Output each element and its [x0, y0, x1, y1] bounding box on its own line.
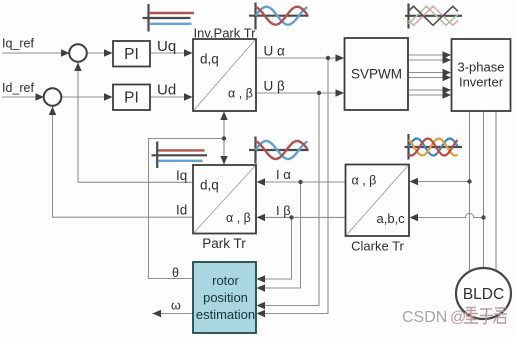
arrow Ubeta into estimator	[257, 302, 266, 309]
scope icon: three-phase currents (above Clarke Tr)	[405, 134, 463, 160]
svg-text:α , β: α , β	[226, 211, 251, 225]
arrow Ialpha into Park	[257, 178, 266, 185]
node Ualpha tap	[326, 56, 330, 60]
block Park Tr	[193, 165, 256, 251]
svg-text:position: position	[203, 290, 248, 305]
svg-text:Iq_ref: Iq_ref	[2, 37, 34, 51]
svg-text:α , β: α , β	[352, 174, 377, 188]
summing junction S2 (Id loop)	[44, 88, 62, 106]
wire PWM line 3	[408, 72, 444, 74]
svg-text:I β: I β	[276, 203, 291, 218]
svg-text:Ud: Ud	[157, 82, 176, 99]
block SVPWM	[345, 38, 409, 110]
wire omega output	[153, 313, 194, 315]
arrow Ibeta into Park	[257, 214, 266, 221]
wire sum1 to PI1	[87, 52, 112, 54]
node theta junction	[222, 136, 226, 140]
wire Ialpha feedback down to rotor estimator	[265, 182, 301, 288]
svg-text:I α: I α	[276, 167, 291, 182]
wire Ibeta Clarke to Park	[265, 216, 346, 218]
arrow into sum2 from Id_ref	[36, 93, 45, 100]
svg-text:Iq: Iq	[176, 168, 187, 183]
block 3-phase Inverter	[452, 39, 511, 111]
block Inv.Park Tr	[193, 26, 256, 112]
wire phase A inverter to BLDC	[469, 111, 471, 272]
wire Ualpha InvPark to SVPWM	[256, 57, 344, 59]
wire phase B tap to Clarke with hop over phase A	[418, 213, 484, 217]
wire Ubeta feedback down to rotor estimator	[265, 93, 320, 306]
wire Id_ref input	[2, 96, 44, 98]
arrow PWM3 into inverter	[443, 69, 452, 76]
summing junction S1 (Iq loop)	[69, 44, 87, 62]
arrow theta into InvPark	[220, 112, 227, 121]
arrow into sum1 from Iq_ref	[61, 49, 70, 56]
scope icon: Ualpha/Ubeta sinusoids (top middle)	[249, 3, 309, 30]
arrow into PI1	[104, 49, 113, 56]
node phase B tap	[481, 215, 485, 219]
arrow PWM5 into inverter	[443, 86, 452, 93]
block rotor position estimation	[193, 262, 256, 333]
wire Ialpha Clarke to Park	[265, 181, 346, 183]
arrow theta into Park	[220, 156, 227, 165]
svg-text:BLDC: BLDC	[463, 286, 504, 303]
arrow phase A into Clarke	[410, 178, 419, 185]
svg-text:ω: ω	[171, 299, 181, 313]
svg-text:Id: Id	[176, 203, 187, 218]
wire Iq_ref input	[2, 52, 70, 54]
svg-text:U β: U β	[264, 79, 286, 94]
svg-text:PI: PI	[124, 46, 139, 63]
watermark handle glyphs (CJK approximation)	[464, 308, 507, 324]
svg-text:Uq: Uq	[157, 38, 176, 55]
node Ibeta tap	[289, 215, 293, 219]
svg-text:d,q: d,q	[200, 52, 219, 67]
wire phase C inverter to BLDC	[495, 111, 497, 271]
svg-text:Inverter: Inverter	[459, 75, 504, 90]
wire PWM line 2	[408, 59, 444, 61]
wire theta vertical into InvPark bottom and Park top	[223, 112, 225, 165]
wire Ibeta feedback down to rotor estimator	[265, 217, 292, 279]
scope icon: three-phase modulation waves (top right)	[405, 4, 462, 29]
arrow Ubeta into SVPWM	[336, 89, 345, 96]
svg-text:CSDN: CSDN	[402, 309, 447, 326]
svg-text:Inv.Park Tr: Inv.Park Tr	[194, 26, 257, 41]
node phase A tap	[467, 179, 471, 183]
wire Ud PI2 to InvPark	[150, 96, 192, 98]
wire PWM line 1	[408, 54, 444, 56]
node Ubeta tap	[317, 91, 321, 95]
wire Ualpha feedback down to rotor estimator	[265, 58, 329, 314]
motor BLDC	[456, 268, 511, 319]
wire phase B inverter to BLDC	[483, 111, 485, 268]
arrow omega output	[153, 310, 162, 317]
svg-text:Id_ref: Id_ref	[2, 81, 34, 95]
svg-text:α , β: α , β	[228, 87, 253, 101]
wire PWM line 4	[408, 77, 444, 79]
wire Id Park to sum2	[53, 107, 194, 218]
arrow Ualpha into estimator	[257, 310, 266, 317]
arrow Ualpha into SVPWM	[336, 54, 345, 61]
arrow into PI2	[104, 93, 113, 100]
block PI 2	[113, 85, 150, 111]
svg-text:d,q: d,q	[200, 178, 219, 193]
arrow Ud into InvPark	[184, 93, 193, 100]
arrow PWM2 into inverter	[443, 56, 452, 63]
wire sum2 to PI2	[62, 96, 113, 98]
scope icon: Uq/Ud dc levels (top left)	[143, 4, 195, 32]
svg-text:a,b,c: a,b,c	[377, 211, 406, 226]
arrow Id into sum2	[49, 107, 56, 116]
arrow PWM1 into inverter	[443, 51, 452, 58]
svg-text:rotor: rotor	[212, 273, 239, 288]
arrow phase B into Clarke	[410, 214, 419, 221]
wire PWM line 6	[408, 94, 444, 96]
wire Iq Park to sum1	[78, 63, 193, 183]
svg-text:3-phase: 3-phase	[458, 60, 505, 75]
svg-text:U α: U α	[264, 44, 286, 59]
node Ialpha tap	[298, 180, 302, 184]
svg-text:Park Tr: Park Tr	[202, 236, 246, 251]
svg-text:PI: PI	[124, 90, 139, 107]
wire PWM line 5	[408, 89, 444, 91]
arrow PWM6 into inverter	[443, 91, 452, 98]
arrow Uq into InvPark	[184, 49, 193, 56]
scope icon: Iq/Id dc levels (left of Park Tr)	[152, 142, 208, 169]
svg-text:θ: θ	[172, 266, 179, 280]
arrow Ibeta into estimator	[257, 275, 266, 282]
wire theta net: rotor block to left riser to Park/InvPark junction	[149, 139, 225, 279]
wire Uq PI1 to InvPark	[150, 52, 192, 54]
arrow Ialpha into estimator	[257, 284, 266, 291]
wire Ubeta InvPark to SVPWM	[256, 92, 344, 94]
arrow PWM4 into inverter	[443, 74, 452, 81]
arrow Iq into sum1	[74, 63, 81, 72]
block Clarke Tr	[346, 165, 410, 254]
scope icon: Ialpha/Ibeta sinusoids (above Park Tr)	[249, 137, 309, 164]
svg-text:Clarke Tr: Clarke Tr	[351, 239, 404, 254]
svg-text:@: @	[450, 309, 466, 326]
svg-text:estimation: estimation	[196, 307, 255, 322]
wire phase A tap to Clarke	[418, 181, 470, 183]
svg-text:SVPWM: SVPWM	[351, 67, 402, 82]
block PI 1	[113, 41, 150, 67]
